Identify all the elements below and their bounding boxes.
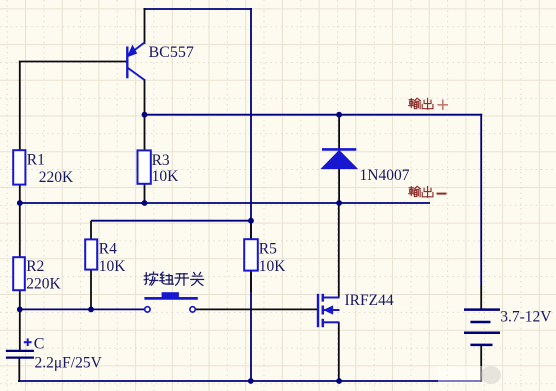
plus sign of 输出+ bbox=[438, 100, 449, 111]
wire left column R2 to C bbox=[19, 289, 21, 351]
svg-text:220K: 220K bbox=[39, 169, 74, 186]
push button switch SW bbox=[144, 292, 197, 298]
svg-text:10K: 10K bbox=[259, 258, 287, 275]
wire MOSFET drain vertical bbox=[338, 203, 340, 298]
node collector/输出+ rail bbox=[142, 112, 148, 118]
svg-text:R5: R5 bbox=[259, 241, 277, 258]
node diode anode / drain bbox=[336, 200, 342, 206]
wire button row left bbox=[19, 308, 145, 310]
wire left column above R1 bbox=[19, 62, 21, 152]
svg-text:220K: 220K bbox=[26, 275, 61, 292]
svg-text:R4: R4 bbox=[99, 241, 117, 258]
wire base of BC557 bbox=[19, 61, 128, 63]
svg-text:R3: R3 bbox=[152, 152, 170, 169]
wire MOSFET source vertical bbox=[338, 322, 340, 382]
wire R3 bottom pin bbox=[144, 184, 146, 204]
wire left column R1 to R2 bbox=[19, 184, 21, 258]
node R3 bottom bbox=[142, 200, 148, 206]
capacitor C plates bbox=[6, 351, 34, 358]
capacitor plus sign bbox=[24, 338, 32, 346]
battery 3.7-12V bbox=[464, 310, 500, 345]
wire right vertical to battery bbox=[480, 114, 482, 286]
wire bottom rail bbox=[18, 380, 482, 382]
wire R5 top pin bbox=[250, 221, 252, 240]
resistor R5 bbox=[244, 239, 258, 270]
MOSFET Q2 IRFZ44 bbox=[318, 294, 340, 327]
resistor R3 bbox=[138, 150, 151, 183]
svg-text:3.7-12V: 3.7-12V bbox=[500, 309, 552, 326]
wire top rail bbox=[144, 8, 253, 10]
svg-text:10K: 10K bbox=[152, 168, 180, 185]
node R5 top bbox=[248, 218, 254, 224]
svg-text:C: C bbox=[34, 335, 45, 352]
wire vertical right of BC557 down to bottom rail bbox=[250, 8, 252, 382]
button contact left bbox=[145, 307, 150, 312]
wire diode cathode pin bbox=[338, 114, 340, 149]
wire mid rail to 输出+ bbox=[144, 114, 483, 116]
label 按钮开关 (push button switch) bbox=[144, 272, 203, 285]
wire R4/R5 top connector bbox=[91, 220, 252, 222]
wire battery bottom pin bbox=[480, 344, 482, 382]
wire emitter drop bbox=[144, 8, 146, 44]
label 输出- (output-) bbox=[409, 186, 433, 197]
button contact right bbox=[190, 307, 195, 312]
svg-text:R1: R1 bbox=[27, 152, 45, 169]
svg-text:BC557: BC557 bbox=[149, 44, 194, 61]
wire R4 bottom pin bbox=[90, 269, 92, 310]
node R2 bottom / C top bbox=[17, 307, 23, 313]
node R4 bottom bbox=[88, 307, 94, 313]
node R1/R2 junction bbox=[17, 200, 23, 206]
svg-text:R2: R2 bbox=[26, 258, 44, 275]
node diode top bbox=[336, 112, 342, 118]
minus sign of 输出- bbox=[437, 193, 447, 195]
wire button row right to gate bbox=[195, 308, 318, 310]
svg-text:10K: 10K bbox=[99, 258, 127, 275]
wire battery top pin bbox=[480, 286, 482, 310]
svg-text:IRFZ44: IRFZ44 bbox=[345, 292, 394, 309]
transistor Q1 BC557 bbox=[127, 43, 144, 81]
node source at bottom rail bbox=[336, 378, 342, 384]
wire diode anode pin bbox=[338, 168, 340, 204]
svg-text:1N4007: 1N4007 bbox=[360, 167, 410, 184]
wire collector to R3 bbox=[144, 79, 146, 151]
svg-text:2.2μF/25V: 2.2μF/25V bbox=[35, 355, 103, 372]
node R5 column at bottom rail bbox=[248, 378, 254, 384]
wire left column C to bottom rail bbox=[18, 358, 20, 383]
wire R4 top pin bbox=[90, 221, 92, 240]
wire rail 输出- bbox=[19, 202, 430, 204]
wire R5 bottom pin bbox=[250, 270, 252, 292]
resistor R1 bbox=[13, 150, 25, 184]
resistor R2 bbox=[13, 257, 25, 290]
diode D1 1N4007 bbox=[322, 149, 358, 168]
label 输出+ (output+) bbox=[409, 98, 433, 109]
resistor R4 bbox=[85, 239, 97, 269]
